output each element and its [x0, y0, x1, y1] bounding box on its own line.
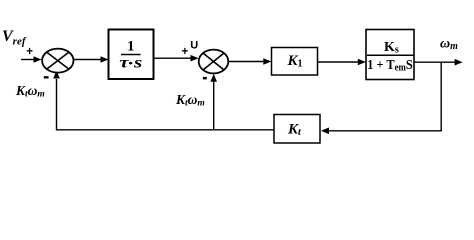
svg-text:1 + TemS: 1 + TemS	[367, 58, 413, 74]
svg-text:+: +	[26, 46, 33, 58]
svg-text:U: U	[190, 40, 198, 52]
svg-text:+: +	[182, 46, 189, 58]
